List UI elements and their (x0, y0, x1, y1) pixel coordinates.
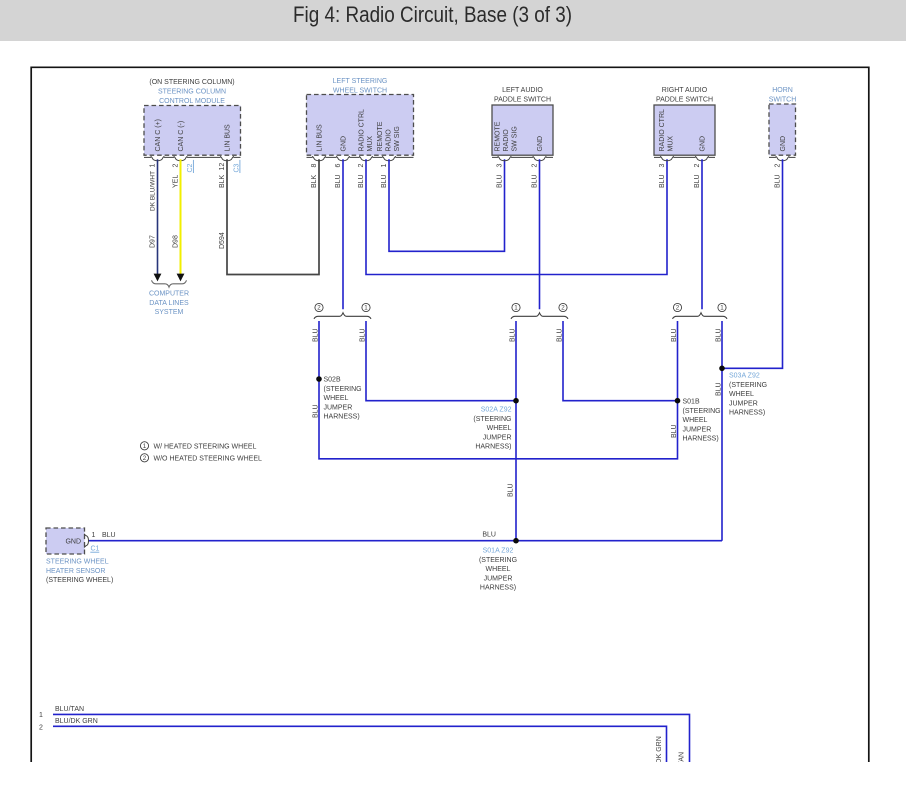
svg-text:D594: D594 (219, 232, 226, 249)
svg-text:JUMPER: JUMPER (483, 434, 512, 441)
wire brace A left leg to S02B to bottom run to S01B leg (319, 321, 678, 459)
svg-text:(STEERING: (STEERING (479, 557, 517, 564)
svg-text:D98: D98 (173, 235, 180, 248)
splice S01A Z92 (513, 538, 519, 544)
svg-text:2: 2 (532, 164, 539, 168)
svg-text:LIN BUS: LIN BUS (317, 124, 324, 152)
svg-text:RADIO: RADIO (503, 129, 510, 152)
connector U6 STEERING WHEEL HEATER SENSOR (46, 528, 85, 554)
svg-text:1: 1 (92, 532, 96, 539)
svg-text:DK BLU/WHT: DK BLU/WHT (150, 171, 157, 211)
splice S02B (316, 376, 322, 382)
svg-text:BLU: BLU (102, 532, 116, 539)
svg-text:BLU: BLU (557, 328, 564, 342)
svg-text:2: 2 (39, 724, 43, 731)
svg-text:3: 3 (497, 164, 504, 168)
wire D97 DK BLU/WHT CAN C(+) (157, 159, 159, 274)
svg-text:JUMPER: JUMPER (683, 426, 712, 433)
svg-text:1: 1 (364, 305, 368, 312)
svg-text:BLU: BLU (508, 483, 515, 497)
svg-text:WHEEL: WHEEL (683, 417, 708, 424)
arrow to computer data lines (177, 274, 185, 282)
svg-text:STEERING WHEEL: STEERING WHEEL (46, 559, 109, 566)
brace computer data lines (152, 280, 187, 287)
svg-text:6: 6 (335, 164, 342, 168)
svg-text:BLU/DK GRN: BLU/DK GRN (656, 736, 663, 779)
svg-text:C1: C1 (91, 546, 100, 553)
svg-text:CONTROL MODULE: CONTROL MODULE (159, 98, 225, 105)
svg-text:WHEEL: WHEEL (729, 391, 754, 398)
svg-text:BLU: BLU (335, 174, 342, 188)
wire horn switch GND to S03A (722, 159, 783, 368)
svg-text:1: 1 (720, 305, 724, 312)
svg-text:BLU: BLU (313, 328, 320, 342)
svg-text:1: 1 (381, 164, 388, 168)
svg-text:S02A Z92: S02A Z92 (481, 407, 512, 414)
option 1 circle (718, 303, 726, 311)
svg-text:WHEEL SWITCH: WHEEL SWITCH (333, 87, 387, 94)
svg-text:YEL: YEL (173, 175, 180, 188)
svg-text:HARNESS): HARNESS) (683, 436, 719, 443)
svg-text:GND: GND (341, 136, 348, 152)
svg-text:BLU: BLU (694, 174, 701, 188)
svg-text:BLU: BLU (482, 532, 496, 539)
svg-text:(ON STEERING COLUMN): (ON STEERING COLUMN) (149, 79, 234, 86)
svg-text:RADIO CTRL: RADIO CTRL (659, 109, 666, 152)
svg-text:2: 2 (694, 164, 701, 168)
svg-text:WHEEL: WHEEL (486, 566, 511, 573)
svg-text:LEFT STEERING: LEFT STEERING (333, 78, 388, 85)
svg-text:BLU: BLU (716, 328, 723, 342)
svg-text:W/O HEATED STEERING WHEEL: W/O HEATED STEERING WHEEL (154, 455, 262, 462)
svg-text:(STEERING: (STEERING (729, 382, 767, 389)
svg-text:BLU: BLU (775, 174, 782, 188)
svg-text:S01B: S01B (683, 399, 700, 406)
svg-text:12: 12 (219, 163, 226, 171)
splice S02A Z92 (513, 398, 519, 404)
wire D594 BLK LIN BUS (227, 159, 319, 274)
splice S03A Z92 (719, 366, 725, 372)
option 2 circle (315, 303, 323, 311)
svg-text:S03A Z92: S03A Z92 (729, 373, 760, 380)
svg-text:D97: D97 (150, 235, 157, 248)
wire GND run from heater sensor to right (88, 540, 722, 542)
svg-text:LEFT AUDIO: LEFT AUDIO (502, 87, 543, 94)
legend option 2 (140, 454, 148, 462)
wire GND right paddle to brace (701, 159, 703, 309)
svg-text:CAN C (-): CAN C (-) (178, 121, 185, 152)
svg-text:2: 2 (143, 455, 147, 462)
svg-text:HARNESS): HARNESS) (324, 414, 360, 421)
option 1 circle (512, 303, 520, 311)
connector U3 LEFT AUDIO PADDLE SWITCH (492, 105, 553, 155)
legend option 1 (140, 442, 148, 450)
connector U4 RIGHT AUDIO PADDLE SWITCH (654, 105, 715, 155)
svg-text:WHEEL: WHEEL (487, 425, 512, 432)
wire D98 YEL CAN C(-) (180, 159, 182, 274)
svg-text:SYSTEM: SYSTEM (155, 309, 184, 316)
svg-text:MUX: MUX (668, 136, 675, 152)
svg-text:BLU: BLU (497, 174, 504, 188)
svg-text:PADDLE SWITCH: PADDLE SWITCH (494, 97, 551, 104)
wire brace A right leg to S02A (366, 321, 516, 401)
svg-text:BLU/TAN: BLU/TAN (55, 706, 84, 713)
connector U5 HORN SWITCH (769, 104, 796, 155)
svg-text:RADIO: RADIO (386, 129, 393, 152)
svg-text:RADIO CTRL: RADIO CTRL (359, 109, 366, 152)
svg-text:REMOTE: REMOTE (377, 121, 384, 151)
svg-text:2: 2 (317, 305, 321, 312)
wire brace C right leg through S03A down to GND run (721, 321, 723, 541)
svg-text:S02B: S02B (324, 377, 341, 384)
svg-text:2: 2 (561, 305, 565, 312)
svg-text:HORN: HORN (772, 87, 793, 94)
svg-text:BLU: BLU (360, 328, 367, 342)
header bar (0, 0, 906, 41)
svg-text:REMOTE: REMOTE (495, 121, 502, 151)
svg-text:3: 3 (659, 164, 666, 168)
svg-text:SW SIG: SW SIG (512, 126, 519, 151)
brace option right audio paddle GND (673, 313, 728, 319)
svg-text:BLK: BLK (311, 174, 318, 188)
svg-text:JUMPER: JUMPER (324, 404, 353, 411)
svg-text:BLU: BLU (671, 424, 678, 438)
wire brace B left leg through S02A to S01A (515, 321, 517, 541)
svg-text:W/ HEATED STEERING WHEEL: W/ HEATED STEERING WHEEL (154, 443, 257, 450)
svg-text:JUMPER: JUMPER (484, 575, 513, 582)
svg-text:Fig 4: Radio Circuit, Base (3: Fig 4: Radio Circuit, Base (3 of 3) (293, 2, 572, 27)
splice S01B (675, 398, 681, 404)
svg-text:BLK: BLK (219, 174, 226, 188)
brace option left steering wheel switch GND (314, 313, 371, 319)
wire RADIO CTRL MUX to right paddle switch (366, 159, 667, 274)
svg-text:1: 1 (39, 712, 43, 719)
svg-text:JUMPER: JUMPER (729, 400, 758, 407)
svg-text:CAN C (+): CAN C (+) (155, 119, 162, 151)
svg-text:(STEERING WHEEL): (STEERING WHEEL) (46, 577, 113, 584)
svg-text:1: 1 (514, 305, 518, 312)
arrow to computer data lines (154, 274, 162, 282)
wire GND left switch to brace (342, 159, 344, 309)
svg-text:BLU/TAN: BLU/TAN (679, 752, 686, 781)
svg-text:BLU: BLU (381, 174, 388, 188)
svg-text:MUX: MUX (367, 136, 374, 152)
svg-text:8: 8 (311, 164, 318, 168)
svg-text:STEERING COLUMN: STEERING COLUMN (158, 89, 226, 96)
svg-text:(STEERING: (STEERING (473, 416, 511, 423)
svg-text:GND: GND (780, 136, 787, 152)
svg-text:SWITCH: SWITCH (769, 97, 797, 104)
svg-text:2: 2 (173, 164, 180, 168)
connector U1 STEERING COLUMN CONTROL MODULE (144, 106, 241, 156)
svg-text:(STEERING: (STEERING (324, 386, 362, 393)
wire REMOTE RADIO SW SIG to left paddle switch (389, 159, 505, 251)
svg-text:BLU: BLU (671, 328, 678, 342)
svg-text:BLU/DK GRN: BLU/DK GRN (55, 718, 98, 725)
svg-text:GND: GND (65, 539, 81, 546)
svg-text:S01A Z92: S01A Z92 (483, 548, 514, 555)
svg-text:BLU: BLU (716, 382, 723, 396)
wire GND left paddle to brace (539, 159, 541, 309)
wire brace B right leg to S01B (563, 321, 678, 401)
svg-text:1: 1 (143, 443, 147, 450)
svg-text:PADDLE SWITCH: PADDLE SWITCH (656, 97, 713, 104)
svg-text:1: 1 (150, 164, 157, 168)
connector U2 LEFT STEERING WHEEL SWITCH (307, 95, 414, 156)
svg-text:SW SIG: SW SIG (394, 126, 401, 151)
svg-text:GND: GND (537, 136, 544, 152)
option 2 circle (559, 303, 567, 311)
svg-text:HEATER SENSOR: HEATER SENSOR (46, 568, 105, 575)
svg-text:BLU: BLU (532, 174, 539, 188)
svg-text:BLU: BLU (659, 174, 666, 188)
svg-text:WHEEL: WHEEL (324, 395, 349, 402)
svg-text:COMPUTER: COMPUTER (149, 291, 189, 298)
svg-text:BLU: BLU (358, 174, 365, 188)
option 1 circle (362, 303, 370, 311)
connector cup (84, 534, 88, 548)
svg-text:2: 2 (775, 164, 782, 168)
svg-text:BLU: BLU (510, 328, 517, 342)
svg-text:HARNESS): HARNESS) (729, 410, 765, 417)
svg-text:(STEERING: (STEERING (683, 408, 721, 415)
svg-text:BLU: BLU (313, 404, 320, 418)
option 2 circle (673, 303, 681, 311)
svg-text:DATA LINES: DATA LINES (149, 300, 189, 307)
svg-text:HARNESS): HARNESS) (480, 585, 516, 592)
svg-text:RIGHT AUDIO: RIGHT AUDIO (662, 87, 708, 94)
brace option left audio paddle GND (511, 313, 568, 319)
svg-text:GND: GND (700, 136, 707, 152)
svg-text:2: 2 (676, 305, 680, 312)
svg-text:HARNESS): HARNESS) (475, 444, 511, 451)
svg-text:LIN BUS: LIN BUS (225, 124, 232, 152)
svg-text:2: 2 (358, 164, 365, 168)
